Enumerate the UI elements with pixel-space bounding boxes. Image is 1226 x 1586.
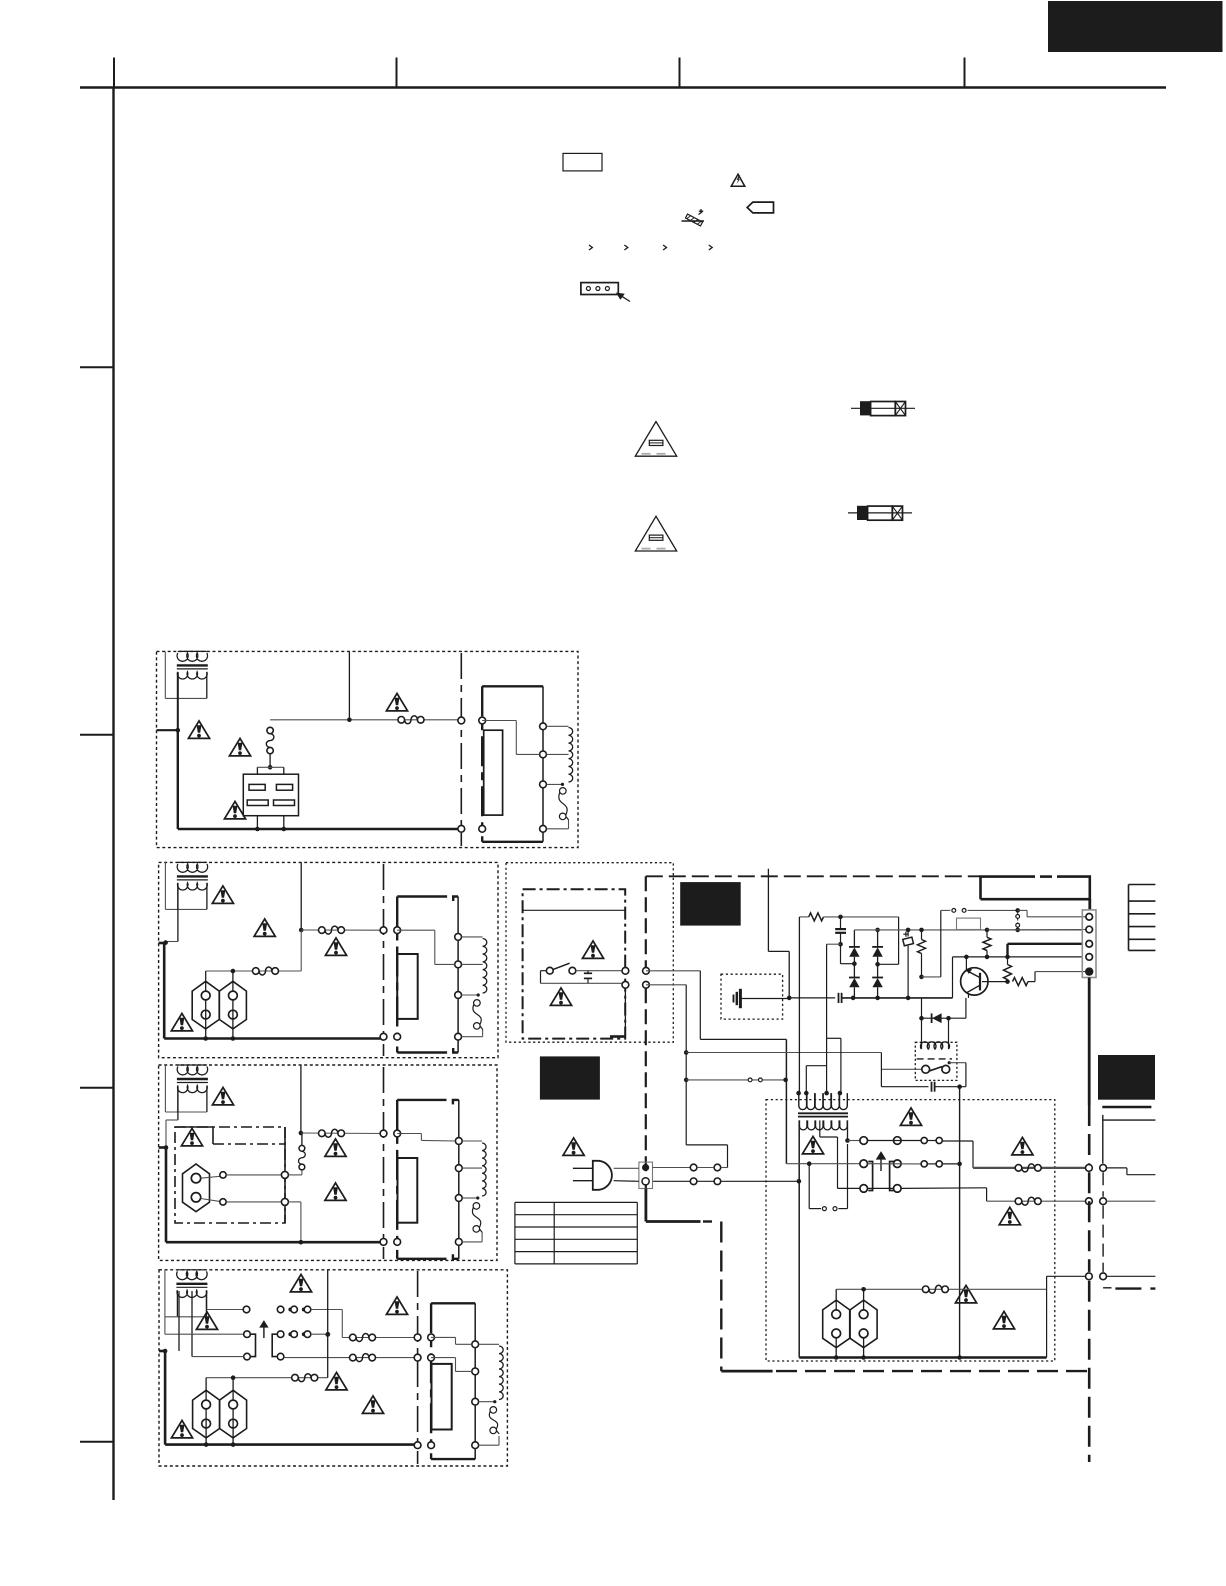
connector pin: [394, 1239, 401, 1246]
wire out 2 cont: [1107, 1200, 1156, 1202]
caution triangle: [1012, 1137, 1033, 1155]
caution triangle: [181, 1128, 202, 1146]
legend fuse-in-triangle 1: [635, 422, 676, 457]
wire T1 secondary lead: [177, 672, 179, 730]
wire collector rail: [953, 956, 1083, 958]
connector pin: [380, 1239, 387, 1246]
return bus: [799, 1356, 1046, 1358]
block 4 dashed enclosure: [159, 1270, 507, 1466]
inductor L2 vertical: [267, 727, 273, 733]
fuse F43: [292, 1374, 299, 1381]
wire top feed: [348, 651, 350, 719]
connector pin: [1086, 1198, 1093, 1205]
T5 core: [798, 1112, 848, 1114]
AC line filter rail: [789, 997, 835, 999]
wire mains live: [786, 1163, 860, 1165]
boundary right thin vertical: [1102, 1172, 1104, 1197]
wire ground bus block4: [165, 1443, 418, 1446]
pin 1: [455, 1138, 462, 1145]
wire R2 link: [922, 976, 941, 978]
wire outlet pins: [205, 1378, 207, 1400]
AC outlet SK5b: [850, 1300, 877, 1348]
wire top feed: [300, 862, 302, 930]
wire outlet pins: [205, 971, 207, 991]
capacitor C1: [587, 971, 589, 973]
connector pin: [622, 981, 629, 988]
inlet terminal block: [639, 1162, 653, 1188]
capacitor C2: [838, 993, 840, 1003]
contact: [220, 1199, 226, 1205]
legend pointer tag: [747, 202, 773, 213]
wire tap feed 1: [431, 1336, 455, 1338]
wire main upper: [301, 929, 383, 931]
connector pin: [1100, 1273, 1107, 1280]
wire row1: [868, 1140, 921, 1142]
wire tap feed: [482, 720, 516, 722]
connector pin: [394, 1130, 401, 1137]
transformer T4F primary line: [474, 1303, 476, 1459]
caution triangle: [999, 1207, 1020, 1225]
switch S4 row2: [179, 1333, 244, 1335]
chassis ground: [733, 995, 735, 1003]
thermal fuse: [473, 1203, 480, 1210]
legend signal arrow 4: [709, 245, 712, 250]
connector pin: [414, 1354, 421, 1361]
wire CN1 down: [1088, 978, 1091, 1106]
fuse F21: [319, 927, 326, 934]
AC inlet SK3: [183, 1164, 210, 1212]
caution triangle: [254, 919, 275, 937]
transformer T3F primary line: [458, 1100, 460, 1259]
wire lower: [540, 971, 542, 984]
core shield bracket: [481, 686, 483, 842]
T5 frame: [798, 1120, 800, 1357]
wire live pair: [653, 1167, 691, 1169]
block 2 dashed enclosure: [159, 862, 498, 1057]
wire return: [462, 1036, 483, 1038]
caution triangle: [900, 1108, 921, 1126]
switch S4 row3: [244, 1353, 251, 1360]
connector pin: [380, 1033, 387, 1040]
contact: [281, 1171, 288, 1178]
wire transformer enclosure: [176, 1290, 178, 1317]
relay contacts: [881, 1068, 921, 1070]
black box module 2: [540, 1056, 600, 1099]
legend fuse symbol F2: [848, 512, 912, 514]
connector pin: [479, 717, 486, 724]
terminal down + boundary: [645, 1189, 648, 1222]
boundary right vertical: [1088, 1105, 1091, 1164]
wire ground bus block3: [166, 1241, 384, 1244]
caution triangle: [362, 1396, 383, 1414]
wire inlet bottom: [201, 1199, 223, 1202]
shield inner plate: [397, 954, 418, 1019]
resistor R4: [1007, 957, 1009, 965]
wire interlock: [684, 1050, 689, 1055]
fuse F53: [922, 1286, 929, 1293]
wire row2: [868, 1163, 921, 1165]
wire cap tap: [827, 943, 841, 945]
connector pin: [643, 967, 650, 974]
wire: [226, 1174, 281, 1176]
wire bridge ac taps: [841, 963, 855, 965]
pin 3: [540, 781, 547, 788]
page frame top rule: [80, 86, 1166, 89]
connector pin: [428, 1354, 435, 1361]
wire sense line: [959, 1087, 961, 1358]
AC outlet SK2b: [219, 981, 246, 1029]
caution triangle: [550, 988, 571, 1006]
wire mains neutral from inlet: [653, 1180, 799, 1182]
registration tick 2: [396, 58, 398, 88]
inner panel line: [523, 909, 626, 911]
switch S4 row1: [207, 1309, 244, 1311]
transformer primary winding: [178, 1064, 207, 1066]
thermal fuse: [560, 788, 567, 795]
registration tick 3: [679, 58, 681, 88]
black box module 3: [1098, 1055, 1155, 1100]
wire service contact: [684, 1078, 689, 1083]
left tick 1: [80, 366, 114, 368]
wire to pin2: [987, 929, 1086, 931]
CN1 pin 2: [1086, 926, 1093, 933]
transformer secondary winding: [177, 1290, 207, 1297]
legend fuse symbol F1: [851, 407, 915, 409]
caution triangle: [196, 1312, 217, 1330]
wire main upper: [270, 719, 461, 721]
fuse F22: [253, 968, 260, 975]
pin 2: [455, 961, 462, 968]
transformer primary winding: [178, 861, 207, 863]
pin 4: [455, 1033, 462, 1040]
core shield bracket: [396, 1100, 398, 1259]
CN2 right pins: [894, 1137, 902, 1145]
caution triangle: [229, 738, 250, 756]
connector pin: [1086, 1273, 1093, 1280]
thermal fuse: [490, 1407, 497, 1414]
wire interlock down: [880, 1053, 882, 1087]
inductor L3 vertical: [288, 1174, 302, 1176]
wire tap feed: [397, 929, 435, 931]
connector pin: [1086, 1165, 1093, 1172]
power transformer T5 primary: [799, 1093, 848, 1109]
resistor R3: [983, 937, 991, 950]
pin 2: [472, 1368, 479, 1375]
T5 tap: [819, 1120, 821, 1137]
transformer primary winding: [178, 650, 207, 652]
core shield bracket: [430, 1303, 432, 1459]
connector pin: [394, 927, 401, 934]
transformer T1F primary line: [542, 686, 544, 842]
transformer core: [177, 875, 208, 877]
legend adjustment symbol: [682, 220, 705, 222]
legend caution triangle: [731, 174, 745, 186]
wire pin stub: [624, 988, 626, 1036]
varistor Z1: [907, 930, 909, 937]
fuse F31: [319, 1130, 326, 1137]
wire plug to terminal: [614, 1167, 639, 1169]
connector pin: [458, 717, 465, 724]
boundary corner piece: [1115, 1287, 1155, 1289]
caution triangle: [171, 1013, 192, 1031]
left tick 2: [80, 734, 114, 736]
bus stub thick: [1102, 1106, 1151, 1109]
wire ground bus block2: [164, 1037, 383, 1040]
CN1 pin 3: [1086, 941, 1093, 948]
AC outlet SK2a: [192, 981, 219, 1029]
caution triangle: [325, 1183, 346, 1201]
relay contact chain: [1016, 915, 1020, 919]
base wire: [982, 981, 1008, 983]
diode D5: [921, 998, 923, 1018]
relay label box: [957, 918, 981, 929]
wire return: [479, 1444, 499, 1446]
wire row3: [868, 1187, 894, 1189]
rectifier plus rail: [854, 929, 1082, 931]
connector pin: [414, 1334, 421, 1341]
transformer core: [177, 664, 208, 666]
rectifier minus rail: [842, 997, 953, 999]
thermal fuse: [474, 1000, 481, 1007]
capacitor C4: [881, 1086, 928, 1088]
bridge rectifier D1-D4: [853, 930, 855, 947]
wire outlet feed: [206, 970, 302, 972]
transformer core: [176, 1283, 207, 1285]
legend signal arrow 1: [589, 245, 592, 250]
caution triangle: [802, 1136, 823, 1154]
wire hub jogs: [806, 1065, 826, 1067]
wire block2 left entry: [159, 942, 167, 945]
contact: [281, 1198, 288, 1205]
connector CN1 body: [1082, 910, 1096, 978]
secondary winding T2F: [462, 936, 483, 938]
wire return: [462, 1241, 482, 1243]
wire block3 left entry: [159, 1146, 167, 1149]
pin 4: [455, 1239, 462, 1246]
caution triangle: [563, 1138, 584, 1156]
standby contact pair: [941, 909, 951, 911]
caution triangle: [188, 721, 209, 739]
chassis boundary line: [383, 864, 385, 1056]
chassis boundary line: [460, 653, 462, 846]
transformer secondary winding: [177, 672, 207, 679]
relay RY1: [243, 774, 298, 816]
caution triangle: [386, 693, 407, 711]
left tick 4: [80, 1441, 114, 1443]
fuse F52: [1015, 1198, 1022, 1205]
registration tick 1: [113, 58, 115, 88]
AC plug: [593, 1161, 612, 1190]
wire block1 left entry: [157, 729, 178, 731]
wire transformer enclosure: [177, 1086, 179, 1113]
secondary winding T1F: [546, 725, 568, 727]
connector pin: [428, 1442, 435, 1449]
wire T2 leads: [177, 883, 179, 941]
block 1 dashed enclosure: [157, 651, 579, 847]
connector pin: [479, 825, 486, 832]
pin 4: [540, 825, 547, 832]
wire ground bus block1: [178, 828, 462, 831]
capacitor C3: [840, 917, 842, 929]
fuse F51: [1015, 1165, 1022, 1172]
registration tick 4: [964, 58, 966, 88]
wire earth riser: [767, 869, 769, 952]
wire transformer enclosure: [177, 883, 179, 910]
CN2 bracket left: [868, 1162, 872, 1191]
chassis boundary line: [417, 1271, 419, 1464]
contact: [220, 1172, 226, 1178]
CN1 pin 4: [1086, 954, 1093, 961]
AC outlet SK4a: [193, 1390, 220, 1438]
wire secondary out 1: [973, 1167, 1086, 1169]
fuse F41: [350, 1334, 357, 1341]
connector pin: [428, 1334, 435, 1341]
wire upper to fuse: [342, 1337, 417, 1339]
wire pin lower to right: [646, 984, 686, 986]
relay RY2 box: [915, 1042, 957, 1080]
caution triangle: [582, 941, 603, 959]
resistor R1: [799, 916, 808, 918]
connector pin: [622, 967, 629, 974]
wire main upper: [301, 1132, 384, 1135]
connector pin: [394, 1033, 401, 1040]
title block (blacked out): [1048, 1, 1223, 52]
pin 3: [472, 1398, 479, 1405]
T5 secondary: [800, 1120, 848, 1130]
connector pin: [458, 825, 465, 832]
fuse L1: [398, 717, 405, 724]
wire relay feed: [257, 766, 283, 768]
wire frame drop: [1088, 899, 1091, 910]
wire top feed: [300, 1065, 302, 1133]
wire transformer enclosure: [177, 672, 179, 699]
connector pin: [643, 981, 650, 988]
black box module 1: [680, 882, 741, 926]
connector pin: [1100, 1198, 1107, 1205]
secondary winding T4F: [479, 1343, 499, 1345]
pin 3: [455, 992, 462, 999]
power block dotted enclosure: [506, 863, 673, 1042]
transformer secondary winding: [178, 1086, 208, 1093]
pin 1: [472, 1341, 479, 1348]
power switch dash-dot box: [523, 889, 626, 1038]
transistor Q1: [961, 968, 988, 995]
caution triangle: [993, 1311, 1014, 1329]
wire top feed: [327, 1270, 329, 1378]
legend signal arrow 3: [663, 245, 666, 250]
wire out 1 cont: [1107, 1167, 1127, 1169]
power frame rectangle: [981, 877, 1090, 900]
transformer unit dotted enclosure: [766, 1100, 1055, 1361]
AC outlet SK5a: [823, 1300, 850, 1348]
chassis boundary main: [645, 876, 647, 967]
relay link dash: [917, 1058, 952, 1060]
resistor R5: [1013, 978, 1029, 986]
wire: [226, 1201, 281, 1203]
pin 1: [455, 934, 462, 941]
relay coil: [921, 1018, 923, 1049]
pin 3: [455, 1195, 462, 1202]
caution triangle: [212, 1087, 233, 1105]
mating arrow: [877, 1153, 885, 1172]
wire T4 leads: [164, 1317, 166, 1334]
AC outlet SK4b: [220, 1390, 247, 1438]
wire secondary out 2: [987, 1200, 1086, 1202]
actuator arrow: [261, 1322, 268, 1339]
caution triangle: [290, 1274, 311, 1292]
wire outlet bottom: [835, 1338, 837, 1358]
wire block4 left entry: [159, 1350, 166, 1353]
CN1 pin 5 keyed: [1085, 967, 1093, 975]
chassis boundary line: [383, 1067, 385, 1259]
connector CN2 left pins: [860, 1137, 868, 1145]
wire tap feed: [397, 1133, 421, 1135]
resistor R2: [921, 930, 923, 940]
caution triangle: [325, 938, 346, 956]
wire R1 down to transformer: [798, 917, 800, 1093]
legend connector box with pins: [581, 283, 618, 295]
pin 1: [540, 723, 547, 730]
voltage table: [515, 1201, 637, 1203]
pin 2: [455, 1165, 462, 1172]
wire to pin1: [1018, 909, 1027, 911]
CN1 pin 1: [1086, 914, 1093, 921]
legend empty box: [563, 153, 602, 171]
connector pin: [380, 1130, 387, 1137]
ribbon header comb: [1128, 885, 1130, 951]
wire T3 leads: [177, 1086, 179, 1120]
fuse F42: [350, 1354, 357, 1361]
caution triangle: [955, 1285, 976, 1303]
wire inlet top: [201, 1176, 223, 1178]
pin 4: [472, 1442, 479, 1449]
shield inner plate: [398, 1158, 418, 1223]
caution triangle: [386, 1297, 407, 1315]
neutral contacts: [690, 1178, 697, 1185]
wire to bus: [288, 1201, 301, 1203]
safety isolation box: [175, 1127, 285, 1223]
page frame left rule: [112, 88, 114, 1501]
interconnect dash-dot top: [646, 875, 981, 877]
thermal protector loop: [808, 1164, 810, 1209]
pin 2: [540, 751, 547, 758]
left tick 3: [80, 1087, 114, 1089]
transformer core: [177, 1078, 208, 1080]
ground box dotted: [721, 974, 783, 1019]
wire out 3 cont: [1107, 1275, 1156, 1277]
wire relay to bus: [256, 816, 258, 829]
transformer T2F primary line: [457, 897, 459, 1053]
caution triangle: [224, 801, 245, 819]
wire pin upper to right: [646, 970, 700, 972]
thick wire pin3: [1008, 943, 1083, 945]
transformer secondary winding: [178, 883, 208, 890]
legend fuse-in-triangle 2: [635, 516, 676, 551]
shield inner plate: [484, 730, 503, 815]
caution triangle: [326, 1372, 347, 1390]
power switch S1: [541, 970, 547, 972]
wire riser to pins: [1046, 1276, 1048, 1357]
legend signal arrow 2: [624, 245, 627, 250]
bus stub thin: [1103, 1119, 1156, 1121]
caution triangle: [212, 886, 233, 904]
connector pin: [414, 1442, 421, 1449]
wire tap feed 2: [431, 1357, 455, 1359]
connector pin: [1100, 1165, 1107, 1172]
secondary winding T3F: [462, 1140, 482, 1142]
caution triangle: [325, 1139, 346, 1157]
shield inner plate: [432, 1364, 452, 1430]
